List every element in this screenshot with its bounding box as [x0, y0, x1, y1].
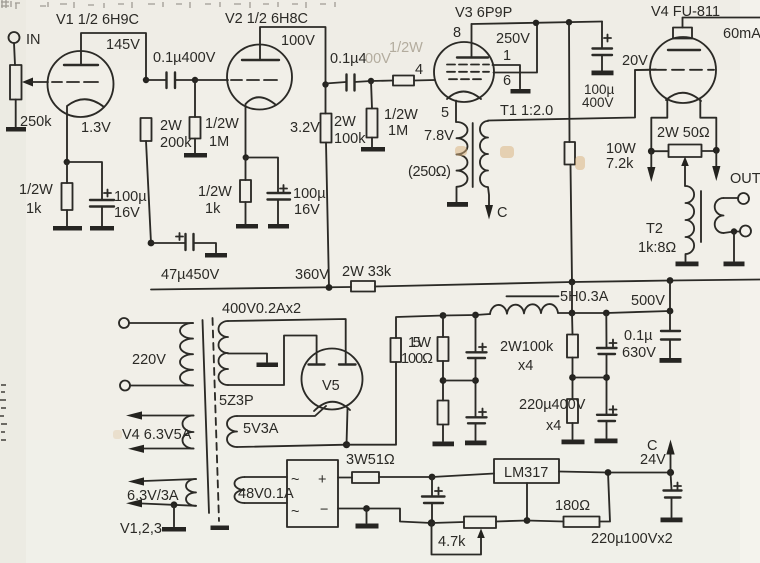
resistor 1/2W 1M (V2 grid leak): [194, 80, 196, 153]
svg-text:500V: 500V: [631, 293, 665, 309]
wire V3 plate to rail: [471, 24, 473, 58]
svg-text:1: 1: [503, 48, 511, 64]
V2 cathode: [246, 97, 277, 157]
svg-text:C: C: [497, 205, 507, 221]
svg-text:0.1µ4: 0.1µ4: [330, 51, 367, 67]
arrow C 24V output: [670, 453, 672, 473]
wire 400V top to V5 anode: [228, 319, 346, 363]
choke 5H0.3A: [490, 304, 558, 314]
wire LM317 ADJ: [526, 483, 528, 521]
node heater ground tap: [171, 501, 178, 508]
svg-text:5V3A: 5V3A: [243, 421, 279, 437]
triode V4 envelope: [650, 37, 716, 103]
node filament left: [648, 148, 655, 155]
wire secondary common to ground: [733, 232, 735, 262]
arrow filament supply right: [715, 150, 717, 167]
svg-text:V5: V5: [322, 378, 340, 394]
node 500V/7.2k riser: [569, 310, 576, 317]
svg-text:1k: 1k: [205, 201, 221, 217]
svg-text:1M: 1M: [209, 134, 229, 150]
capacitor 47µ450V (decoupling): [151, 233, 216, 253]
V3 cathode: [447, 92, 481, 100]
V2 plate: [242, 59, 279, 61]
svg-text:1k: 1k: [26, 201, 42, 217]
wire V4 plate lead: [683, 18, 760, 28]
svg-text:4: 4: [415, 62, 423, 78]
svg-text:V3 6P9P: V3 6P9P: [455, 5, 512, 21]
node filament right: [713, 147, 720, 154]
svg-text:200k: 200k: [160, 135, 192, 151]
wire V4 filament right: [700, 100, 716, 150]
svg-text:(250Ω): (250Ω): [408, 164, 451, 180]
ground (bridge minus): [356, 524, 379, 529]
wire V5 filament to output node: [347, 409, 348, 445]
T2 primary winding: [686, 186, 695, 261]
ground (V1 bypass cap): [90, 226, 114, 231]
svg-text:IN: IN: [26, 32, 41, 48]
ground (bleeder 1): [433, 442, 455, 447]
node minus/ground: [363, 505, 370, 512]
winding 6.3V/3A (small tubes heater): [186, 479, 196, 506]
capacitor 100µ 400V (250V node filter): [602, 22, 611, 49]
svg-text:60mA: 60mA: [723, 26, 760, 42]
wire 400V bottom to V5 anode: [228, 336, 317, 386]
ground (T2 secondary): [724, 262, 745, 267]
svg-text:100µ: 100µ: [114, 189, 147, 205]
winding 6.3V5A (V4 heater): [183, 416, 194, 449]
ground (cap pair 1): [465, 441, 487, 446]
node V2 cathode junction: [243, 154, 249, 160]
500V filter rail: [476, 311, 671, 315]
rectifier V5 envelope: [302, 349, 363, 410]
wire V1 plate to top rail: [81, 33, 146, 80]
svg-text:V4 6.3V5A: V4 6.3V5A: [122, 427, 192, 443]
ground (shield): [211, 526, 230, 531]
transformer shield (dashed): [213, 318, 220, 521]
wire 48V winding to bridge: [245, 477, 288, 503]
node rail/7.2k: [569, 279, 576, 286]
ground (heater winding): [162, 527, 186, 532]
wiper return loop: [432, 523, 482, 555]
svg-text:5: 5: [441, 105, 449, 121]
wire bridge minus rail: [338, 509, 432, 524]
svg-text:220µ100Vx2: 220µ100Vx2: [591, 531, 673, 547]
svg-text:2W: 2W: [334, 114, 356, 130]
svg-text:250V: 250V: [496, 31, 530, 47]
svg-text:6: 6: [503, 73, 511, 89]
svg-text:LM317: LM317: [504, 465, 548, 481]
arrow node C (T1 secondary to V4 cathode circuit): [485, 205, 493, 220]
svg-text:24V: 24V: [640, 452, 666, 468]
node plate rail / dropping resistor: [566, 19, 572, 25]
svg-text:47µ450V: 47µ450V: [161, 267, 220, 283]
wire 5V3A top to filament: [237, 406, 326, 416]
ground (V2 cathode resistor): [236, 224, 258, 229]
pentode V3 envelope: [434, 42, 494, 102]
resistor 10W 7.2k (screen dropper): [569, 22, 572, 282]
wire V4 filament left: [651, 99, 667, 151]
svg-text:1M: 1M: [388, 123, 408, 139]
resistor 15W 100Ω (filter series): [347, 316, 444, 445]
V5 anode left: [309, 363, 325, 365]
potentiometer 250k body: [10, 65, 22, 100]
bridge rectifier: [287, 460, 338, 527]
scan stain marks: [113, 146, 585, 439]
svg-text:1/2W: 1/2W: [198, 184, 232, 200]
svg-text:145V: 145V: [106, 37, 140, 53]
wire rail to 500V rail risers: [572, 281, 670, 314]
capacitor 100µ 16V (V2 cathode bypass): [246, 158, 278, 193]
svg-text:100k: 100k: [334, 131, 366, 147]
node bleeder midpoint 2: [569, 374, 576, 381]
svg-text:1k:8Ω: 1k:8Ω: [638, 240, 676, 256]
svg-text:2W100k: 2W100k: [500, 339, 554, 355]
svg-text:1/2W: 1/2W: [384, 107, 418, 123]
V3 plate: [457, 56, 488, 58]
winding 5V3A: [227, 416, 237, 447]
node V1 plate/coupling junction: [143, 77, 149, 83]
node V2 grid junction: [192, 77, 198, 83]
wire mains to primary: [129, 323, 193, 386]
node 47µ junction: [148, 240, 155, 247]
ground (47µ cap): [205, 253, 227, 258]
V5 filament: [314, 402, 350, 411]
node output/cap: [667, 469, 674, 476]
node bleeder midpoint 1: [440, 377, 447, 384]
potentiometer wiper arrow: [22, 78, 33, 87]
node cap midpoint 1: [472, 377, 479, 384]
svg-text:5Z3P: 5Z3P: [219, 393, 254, 409]
svg-text:OUT: OUT: [730, 171, 760, 187]
svg-text:16V: 16V: [294, 202, 320, 218]
node output/180Ω: [605, 469, 612, 476]
T2 secondary winding: [715, 198, 724, 233]
svg-text:7.8V: 7.8V: [424, 128, 454, 144]
V4 plate: [668, 49, 700, 51]
svg-text:x4: x4: [546, 418, 561, 434]
mains terminal L: [119, 318, 129, 328]
T1 core: [472, 123, 474, 187]
ground (T1 primary): [447, 202, 468, 207]
resistor 2W 100k (V2 plate load): [326, 85, 330, 288]
svg-text:100Ω: 100Ω: [401, 351, 433, 367]
svg-text:V1 1/2 6H9C: V1 1/2 6H9C: [56, 12, 139, 28]
svg-text:100V: 100V: [281, 33, 315, 49]
svg-text:1/2W: 1/2W: [205, 116, 239, 132]
V3 plate rail 250V: [472, 22, 603, 25]
T1 primary winding (250Ω): [457, 122, 468, 202]
wire T2 secondary to OUT: [724, 198, 741, 233]
ground (V2 bypass cap): [268, 224, 289, 229]
ground (V2 grid leak): [184, 153, 207, 158]
mains terminal N: [120, 381, 130, 391]
ground (cap pair 2): [595, 439, 618, 444]
T2 core: [700, 191, 702, 242]
transformer primary 220V: [180, 323, 193, 385]
svg-text:48V0.1A: 48V0.1A: [238, 486, 294, 502]
choke core bar: [507, 295, 559, 297]
wire IN to potentiometer: [14, 43, 15, 65]
wire 400V center tap: [228, 354, 267, 363]
node 500V/0.1µ cap: [667, 308, 674, 315]
node V5 output: [343, 441, 350, 448]
ground (250k pot): [6, 127, 26, 132]
svg-text:400V0.2Ax2: 400V0.2Ax2: [222, 301, 301, 317]
V3 grids (dashed rows): [447, 65, 489, 80]
node LM317 input: [429, 474, 436, 481]
svg-text:1.3V: 1.3V: [81, 120, 111, 136]
triode V1 envelope: [48, 51, 114, 117]
svg-text:360V: 360V: [295, 267, 329, 283]
svg-text:T2: T2: [646, 221, 663, 237]
svg-text:~: ~: [291, 472, 299, 488]
svg-text:V1,2,3: V1,2,3: [120, 521, 162, 537]
transformer core (solid): [203, 320, 210, 513]
supply rail 360V/500V: [151, 280, 760, 290]
wire 5V3A bottom to output node: [237, 445, 347, 447]
wire wiper to V1 grid: [31, 81, 98, 83]
winding 48V0.1A: [235, 477, 245, 503]
regulator LM317: [494, 459, 559, 483]
ground (100µ400V cap): [592, 71, 614, 76]
wire bleeder midpoints 2: [573, 377, 607, 379]
node rail/V2 load: [326, 284, 333, 291]
V5 anode right: [339, 363, 356, 365]
page-top cut-off text fragments: [1, 0, 335, 9]
node V2 plate junction: [322, 81, 328, 87]
node V1 cathode junction: [64, 159, 70, 165]
wire minus to ground: [366, 509, 368, 524]
wire heater tap to ground: [173, 505, 175, 527]
wire input node to LM317: [432, 474, 494, 478]
node V3 grid junction: [368, 78, 374, 84]
svg-text:+: +: [318, 472, 326, 488]
input terminal IN: [9, 32, 20, 43]
wire+arrow 6.3V5A top: [142, 415, 194, 417]
wire T1 secondary to V4 grid: [488, 70, 656, 121]
V4 grid (dashed): [654, 69, 714, 71]
svg-text:−: −: [320, 502, 328, 518]
svg-text:100µ: 100µ: [293, 186, 326, 202]
svg-text:2W: 2W: [160, 118, 182, 134]
wire+arrow 6.3V/3A bottom: [142, 504, 196, 506]
svg-text:2W 50Ω: 2W 50Ω: [657, 125, 710, 141]
T1 secondary winding: [480, 121, 489, 207]
capacitor 100µ 16V (V1 cathode bypass): [67, 162, 102, 199]
page-left margin text fragments: [0, 385, 7, 440]
capacitors 220µ400V x4 (second pair): [606, 313, 616, 438]
wire V2 plate to junction: [260, 27, 326, 85]
node T2 secondary common: [731, 228, 737, 234]
node ADJ: [524, 517, 531, 524]
V1 cathode: [67, 99, 104, 162]
node B+ resistor column: [440, 312, 447, 319]
resistor 2W 200k (V1 plate load): [141, 118, 152, 141]
wire+arrow 6.3V5A bottom: [144, 448, 194, 450]
svg-text:220V: 220V: [132, 352, 166, 368]
svg-text:630V: 630V: [622, 345, 656, 361]
svg-text:0.1µ: 0.1µ: [624, 328, 653, 344]
wire bleeder midpoints 1: [443, 380, 476, 382]
ground (V3 grid leak): [361, 147, 385, 152]
pot wiper arrow to T2: [684, 164, 686, 187]
svg-text:10W: 10W: [606, 141, 636, 157]
wire V3 cathode to T1: [455, 101, 457, 123]
wire V2 grid: [195, 79, 277, 81]
node cap/adj rail: [428, 519, 436, 527]
svg-text:8: 8: [453, 25, 461, 41]
wire B+ node: [443, 314, 476, 317]
V4 filament: [666, 93, 701, 101]
ground (T2 primary): [676, 262, 699, 267]
ground (0.1µ630V): [660, 358, 682, 363]
triode V2 envelope: [227, 45, 292, 110]
svg-text:400V: 400V: [582, 95, 614, 110]
svg-text:0.1µ400V: 0.1µ400V: [153, 50, 216, 66]
wire LM317 output 24V rail: [559, 472, 671, 473]
node rail/right riser: [667, 277, 674, 284]
V4 top cap: [673, 28, 692, 39]
ground (center tap): [257, 363, 279, 368]
svg-text:1/2W: 1/2W: [19, 182, 53, 198]
ground (V1 cathode resistor): [53, 226, 82, 231]
resistor 1/2W 1M (V3 grid leak): [371, 81, 372, 147]
svg-text:T1 1:2.0: T1 1:2.0: [500, 103, 553, 119]
capacitor input filter: [432, 477, 442, 496]
svg-text:~: ~: [291, 504, 299, 520]
svg-text:x4: x4: [518, 358, 533, 374]
terminal OUT common: [740, 226, 751, 237]
svg-text:V2 1/2 6H8C: V2 1/2 6H8C: [225, 11, 308, 27]
svg-text:3W51Ω: 3W51Ω: [346, 452, 395, 468]
capacitor 220µ100Vx2: [671, 473, 682, 490]
V1 plate: [64, 64, 98, 66]
ground (V3 pin 1): [511, 89, 531, 94]
svg-text:1/2W: 1/2W: [389, 40, 423, 56]
potentiometer 4.7k: [432, 521, 528, 524]
svg-text:16V: 16V: [114, 205, 140, 221]
wire V4 grid lead: [635, 69, 654, 71]
bleeder 2W100k x4 (second pair): [571, 313, 574, 439]
svg-text:20V: 20V: [622, 53, 648, 69]
svg-text:2W 33k: 2W 33k: [342, 264, 392, 280]
arrow filament supply left: [650, 151, 652, 168]
svg-text:7.2k: 7.2k: [606, 156, 634, 172]
svg-text:4.7k: 4.7k: [438, 534, 466, 550]
resistor 2W 33k (series dropper): [351, 281, 375, 292]
node 500V/cap column: [603, 310, 610, 317]
ground (bleeder 2): [562, 440, 585, 445]
svg-text:15W: 15W: [408, 335, 431, 351]
svg-text:180Ω: 180Ω: [555, 498, 590, 514]
wire pot to ground: [15, 100, 17, 128]
wire+arrow 6.3V/3A top: [144, 479, 196, 481]
resistor 1/2W 1k (V2 cathode): [245, 158, 247, 225]
node B+ cap column: [472, 312, 479, 319]
resistor 1/2W 1k (V1 cathode): [66, 162, 68, 226]
svg-text:5H0.3A: 5H0.3A: [560, 289, 609, 305]
terminal OUT hot: [738, 193, 749, 204]
node cap midpoint 2: [603, 374, 610, 381]
node plate rail / pin6: [533, 20, 539, 26]
ground (220µ100V): [661, 518, 683, 523]
svg-text:00V: 00V: [365, 51, 391, 67]
svg-text:3.2V: 3.2V: [290, 120, 320, 136]
